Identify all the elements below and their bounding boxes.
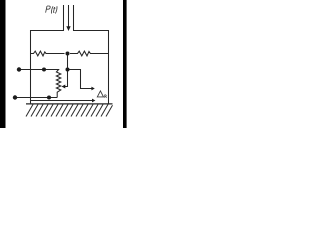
pin dot on lower tie line [13,95,17,99]
spring k3 (vertical coil) [54,70,61,98]
node B junction dot [66,68,70,72]
wire: left chimney wall, box top-left edge, left wall [31,5,64,104]
wire: upper tie line [19,69,54,71]
wire: floor line to displacement arrow [30,100,92,102]
arrowhead of floor displacement arrow [92,99,95,103]
background [0,0,128,128]
ground hatching [26,104,113,116]
wire: branch from node B right, down, to displacement arrow [70,70,92,89]
label P(t) [45,6,57,14]
node dot on upper tie line [42,68,46,72]
force arrow P(t) shaft [68,5,70,27]
wire: right chimney wall, box top-right edge, right wall [74,5,109,104]
label Delta R [97,91,106,98]
wire: lower tie line [15,97,57,99]
spring k1 (left zigzag on mid line) with wire from left wall [31,51,65,56]
wire: vertical member from node A down, hook left [65,54,68,87]
node A junction dot [66,52,70,56]
arrowhead of displacement arrow Delta R [91,87,94,91]
ground line [26,103,113,105]
node dot on lower tie line [47,96,51,100]
arrowhead pointing at spring k3 [62,85,66,89]
spring k2 (right zigzag on mid line) with wire to right wall [70,51,109,56]
pin dot on upper tie line [17,67,21,71]
force arrowhead P(t) [66,26,70,31]
